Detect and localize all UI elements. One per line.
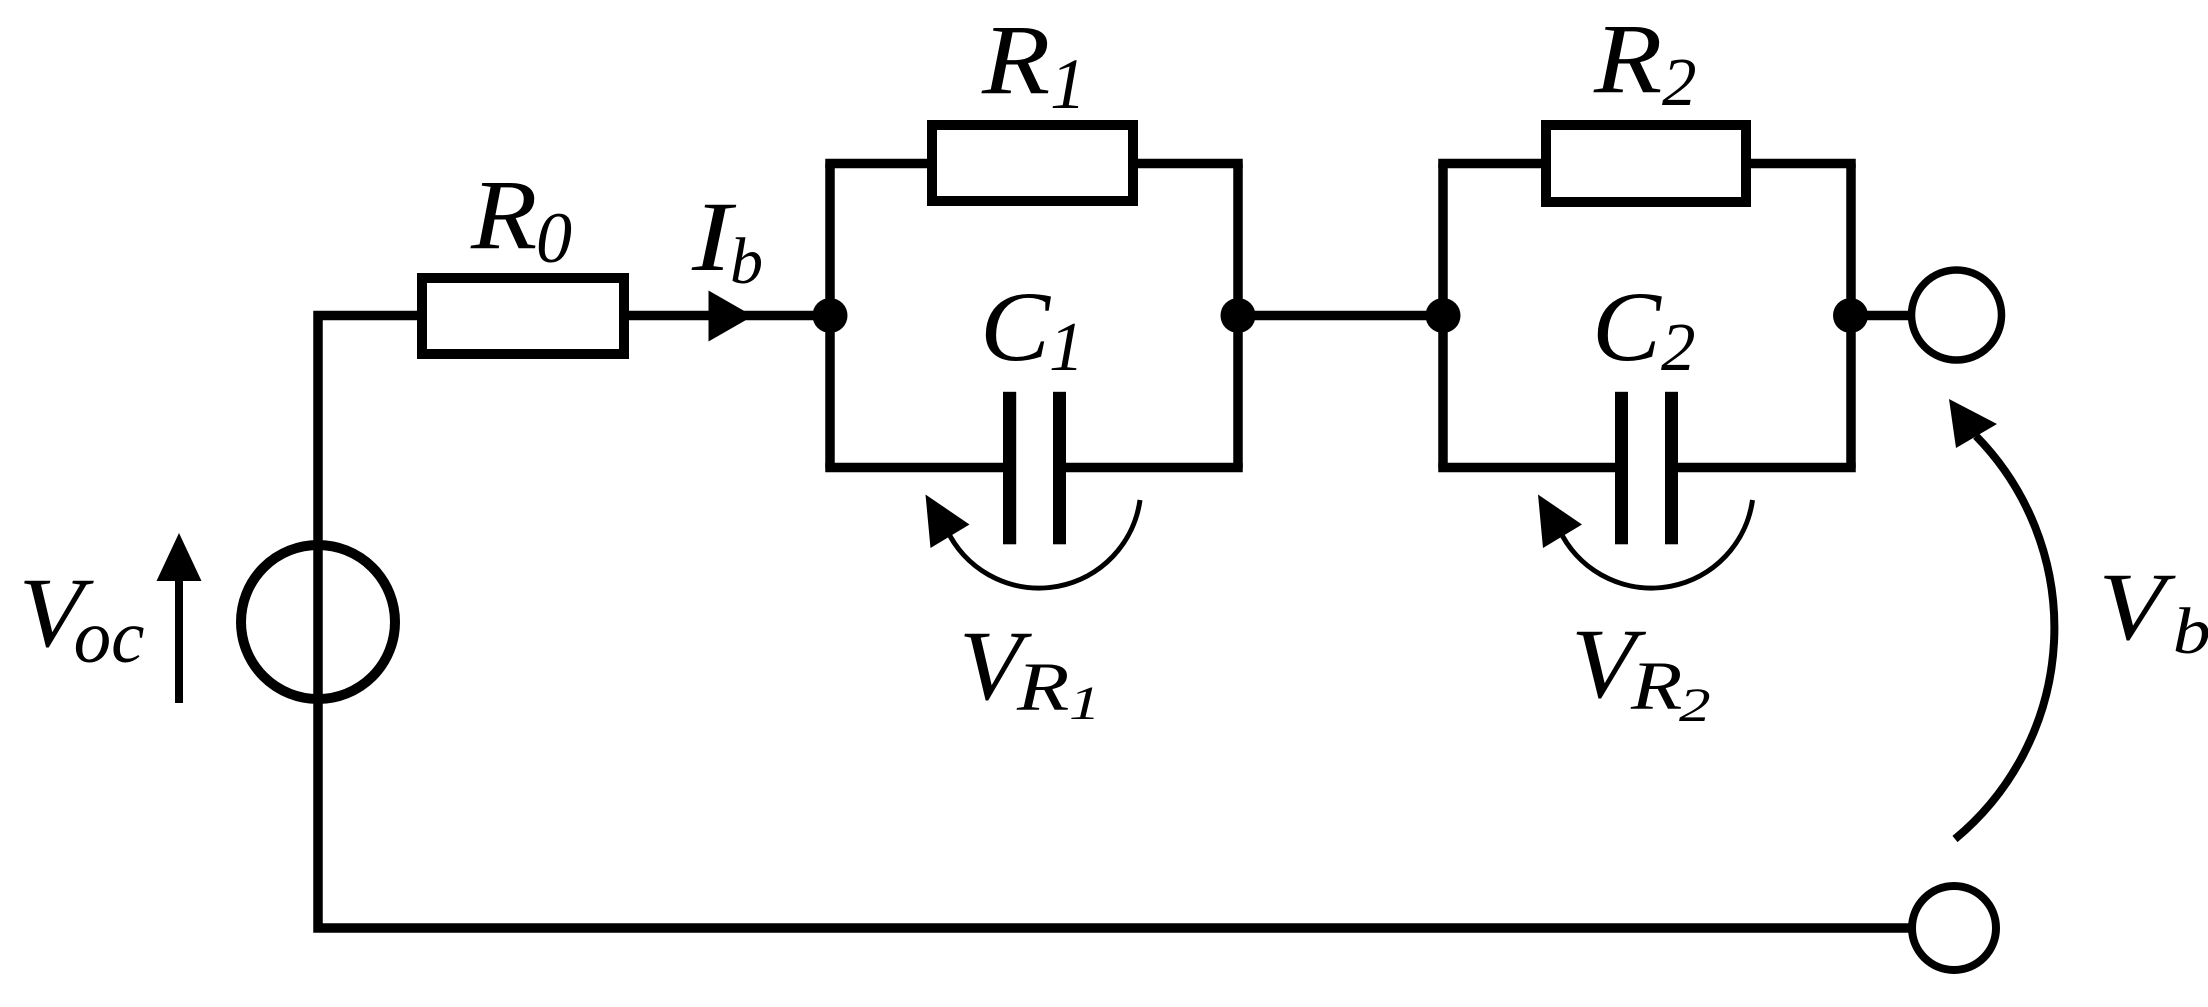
svg-text:1: 1 <box>1049 309 1084 386</box>
VR1 arc arrow <box>926 495 1141 589</box>
VR2 label <box>1571 608 1711 732</box>
Ib arrowhead <box>709 291 754 342</box>
svg-text:R: R <box>1593 3 1662 114</box>
wire R0 to node A with Ib arrow <box>629 311 830 321</box>
Vb arc arrow <box>1949 399 2054 839</box>
RC2 left wire <box>1438 164 1448 469</box>
svg-text:b: b <box>2173 595 2208 668</box>
C1 label <box>980 271 1084 386</box>
svg-text:R: R <box>1016 649 1070 725</box>
R2 label <box>1593 3 1697 120</box>
resistor R2 <box>1546 125 1746 202</box>
wire node D to terminal <box>1850 311 1912 321</box>
node D dot <box>1833 298 1868 333</box>
svg-text:0: 0 <box>536 198 572 278</box>
Voc arrow <box>157 533 202 703</box>
svg-text:R: R <box>1630 648 1683 724</box>
svg-text:2: 2 <box>1679 679 1711 732</box>
RC2 top rail left <box>1438 159 1541 169</box>
C2 label <box>1592 271 1696 385</box>
node B dot <box>1221 298 1256 333</box>
R1 label <box>981 4 1086 124</box>
svg-text:R: R <box>470 159 537 270</box>
VR1 label <box>959 610 1101 730</box>
svg-text:2: 2 <box>1661 309 1696 385</box>
VR2 arc arrow <box>1538 495 1753 589</box>
Ib label <box>691 181 763 298</box>
svg-text:1: 1 <box>1069 677 1101 730</box>
svg-text:C: C <box>980 271 1051 382</box>
RC2 bottom rail right <box>1678 463 1856 473</box>
R0 label <box>470 159 572 278</box>
svg-text:V: V <box>2098 553 2175 660</box>
RC2 bottom rail left <box>1438 463 1615 473</box>
RC1 bottom rail right <box>1066 463 1243 473</box>
svg-text:1: 1 <box>1050 44 1086 124</box>
RC1 top rail left <box>825 159 927 169</box>
node C dot <box>1426 298 1461 333</box>
svg-text:R: R <box>981 4 1050 115</box>
RC1 left wire <box>825 164 835 469</box>
RC1 bottom rail left <box>825 463 1003 473</box>
Voc label <box>19 557 145 679</box>
wire left loop and bottom rail <box>318 316 1912 929</box>
svg-text:C: C <box>1592 271 1662 382</box>
terminal bottom circle <box>1912 886 1996 970</box>
RC2 top rail right <box>1751 159 1856 169</box>
node A dot <box>813 298 848 333</box>
RC1 right wire <box>1233 164 1243 469</box>
wire node B to node C <box>1238 311 1443 321</box>
svg-text:b: b <box>730 225 763 298</box>
Vb label <box>2098 553 2208 668</box>
resistor R1 <box>932 125 1133 201</box>
svg-text:oc: oc <box>74 596 145 679</box>
RC2 right wire <box>1846 164 1856 469</box>
voltage source U Voc <box>241 545 395 699</box>
RC1 top rail right <box>1138 159 1243 169</box>
capacitor C1 plates <box>1003 392 1016 545</box>
resistor R0 <box>422 278 624 354</box>
svg-text:2: 2 <box>1662 44 1697 120</box>
capacitor C2 plates <box>1615 392 1628 545</box>
terminal top circle <box>1912 270 2002 360</box>
